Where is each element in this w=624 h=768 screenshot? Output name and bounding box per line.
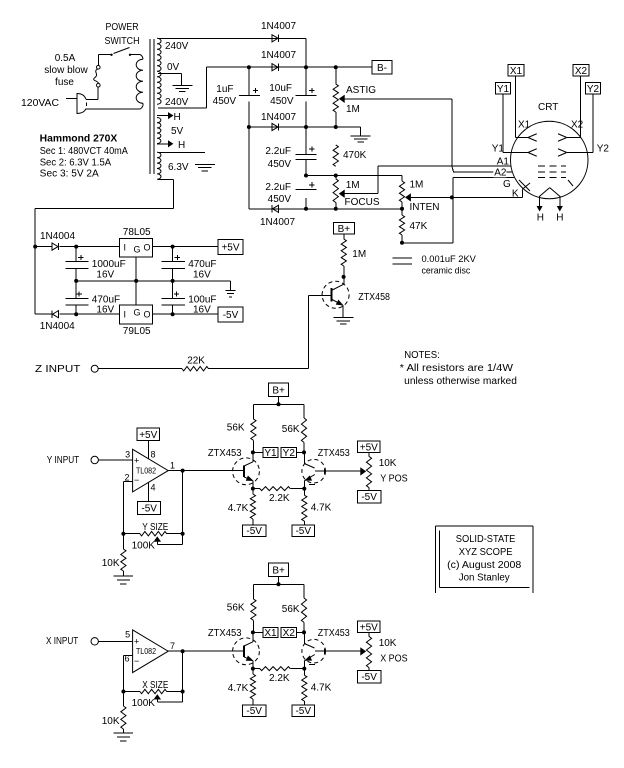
svg-text:450V: 450V [213,96,237,107]
resistor 4.7K Y right [302,489,332,525]
wire mid rail [249,126,361,128]
capacitor legend 0.001uF [393,254,477,277]
resistor 2.2K X [253,667,304,684]
svg-text:X POS: X POS [380,654,408,665]
svg-text:0.5A: 0.5A [55,53,76,64]
diode D2 1N4007 [261,50,296,71]
CRT grid G dashes [538,177,566,179]
svg-text:-5V: -5V [141,504,157,515]
power switch S1 [110,48,131,57]
pot Y POS 10K [361,453,408,491]
svg-text:Sec 1: 480VCT 40mA: Sec 1: 480VCT 40mA [40,146,128,157]
svg-text:Y1: Y1 [264,448,277,459]
svg-text:Sec 2: 6.3V 1.5A: Sec 2: 6.3V 1.5A [40,158,112,169]
svg-text:2.2uF: 2.2uF [265,182,291,193]
wire fuse to switch [98,55,110,66]
pot Y SIZE 100K [123,522,182,551]
svg-text:1N4004: 1N4004 [40,321,75,332]
svg-text:10K: 10K [379,458,397,469]
wire 0V tap to ground [158,73,181,85]
svg-text:450V: 450V [268,194,292,205]
CRT Y2 plate [558,144,609,157]
svg-text:100K: 100K [132,540,156,551]
text A2 label [493,168,507,179]
svg-text:4.7K: 4.7K [311,503,332,514]
net label -5V Y left [242,525,266,537]
svg-text:TL082: TL082 [136,646,156,656]
svg-text:1M: 1M [346,180,360,191]
svg-text:2.2uF: 2.2uF [265,146,291,157]
text 6.3V winding [168,162,189,173]
junction Y output [181,469,185,473]
text 240V bottom tap [165,97,189,108]
svg-text:-5V: -5V [361,492,377,503]
text POWER SWITCH label [105,22,140,47]
heater tap H lower [157,140,185,151]
wire plug bottom to primary bottom [86,108,141,110]
resistor 2.2K Y [253,487,304,504]
ground 0V center tap [172,86,192,92]
wire Y op-amp inverting stub [123,481,132,533]
svg-text:FOCUS: FOCUS [345,197,380,208]
svg-text:+: + [134,455,139,465]
wire 22K to riser [209,368,309,370]
svg-text:X1: X1 [264,628,277,639]
svg-text:4.7K: 4.7K [228,683,249,694]
junction mid rail at C2 [304,125,308,129]
svg-text:-5V: -5V [223,310,239,321]
svg-text:ZTX453: ZTX453 [318,448,350,459]
svg-text:B+: B+ [272,385,285,396]
svg-text:−: − [134,656,139,666]
wire LV left rail [34,247,36,315]
junction K node [450,195,454,199]
text Sec 1 [40,146,128,157]
heater tap H upper [157,112,181,123]
svg-text:10K: 10K [102,716,120,727]
svg-text:Y INPUT: Y INPUT [47,455,79,466]
junction mid rail at G pin [134,279,138,283]
svg-text:X INPUT: X INPUT [46,636,78,647]
net label -5V supply [218,307,243,322]
wire A1 line [378,165,511,167]
ground LV supply [225,290,235,296]
svg-text:CRT: CRT [538,102,558,113]
wire ASTIG wiper to A1 [344,99,452,166]
wire G line [453,178,514,198]
capacitor C7 470uF 16V [162,247,217,281]
ground Y 10K [114,576,133,584]
junction X left emitter [251,667,255,671]
svg-text:7: 7 [170,641,175,651]
junction X SIZE left [121,690,125,694]
wire Y op-amp output [168,470,243,472]
net label Y2 out [281,447,304,459]
CRT heater lead H left [537,196,544,223]
svg-text:G: G [134,245,141,255]
text 5V winding [171,126,184,137]
text G label [503,179,511,190]
wire cap midpoint to INTEN top [306,175,402,177]
CRT Y1 plate [492,144,537,157]
pot INTEN 1M [399,176,439,214]
svg-text:Z INPUT: Z INPUT [35,364,80,375]
transformer T1 5V winding [157,118,161,144]
svg-text:240V: 240V [165,41,189,52]
CRT X1 plate [518,120,537,142]
junction bottom rail at FOCUS [334,207,338,211]
wire INTEN wiper to K node [410,196,452,198]
svg-text:slow blow: slow blow [44,65,88,76]
svg-text:Y SIZE: Y SIZE [142,522,168,533]
junction X output [181,649,185,653]
junction Y2 collector [302,450,306,454]
pot X SIZE 100K [123,680,182,709]
wire D1 to B- rail [305,38,307,67]
svg-text:240V: 240V [165,97,189,108]
text Z INPUT [35,364,80,375]
svg-text:56K: 56K [282,424,300,435]
wire Y output to feedback [182,471,184,534]
junction X SIZE right [181,690,185,694]
svg-text:-5V: -5V [246,526,262,537]
wire 6.3V top tap [158,151,205,153]
net label +5V op-amp Y [137,428,160,441]
svg-text:X2: X2 [575,66,588,77]
svg-text:-5V: -5V [246,706,262,717]
terminal X input [91,638,98,645]
svg-text:120VAC: 120VAC [21,98,59,109]
diode D1 1N4007 [261,21,296,42]
svg-text:X1: X1 [510,66,523,77]
svg-text:78L05: 78L05 [123,227,151,238]
wire K line to CRT [452,183,530,197]
wire switch to transformer primary [130,54,140,56]
wire Z input [98,368,182,370]
svg-text:470K: 470K [343,150,367,161]
text X INPUT [46,636,78,647]
text Sec 2 [40,158,112,169]
svg-text:X1: X1 [518,120,531,131]
net label -5V Y right [292,525,315,537]
title box [435,526,533,593]
svg-text:100K: 100K [132,698,156,709]
CRT X2 plate [558,120,584,142]
svg-text:1N4007: 1N4007 [261,21,296,32]
svg-text:Y2: Y2 [283,448,296,459]
svg-text:56K: 56K [227,603,245,614]
wire 240V bottom tap [158,67,206,108]
svg-text:ZTX453: ZTX453 [208,448,242,459]
wire 78L05 G to 79L05 G [135,257,137,305]
wire B+ X stub [278,576,280,584]
text resistors note 2 [404,376,517,387]
pot FOCUS 1M [333,176,380,209]
wire B+ Y stub [278,396,280,404]
svg-text:10uF: 10uF [269,83,292,94]
CRT anode A1 dashes [538,165,566,167]
text NOTES [404,350,440,361]
transformer T1 HV secondary winding [157,38,161,104]
svg-text:1N4004: 1N4004 [40,231,75,242]
wire X op-amp output [168,650,243,652]
junction -5V rail at C6 [74,312,78,316]
svg-text:(c) August 2008: (c) August 2008 [447,560,522,571]
junction Y left emitter [251,487,255,491]
net label +5V supply [218,240,243,255]
CRT envelope [511,121,589,199]
net label B+ HV [333,223,354,235]
CRT anode A2 dashes [538,171,566,173]
wire X2 plate lead [567,76,581,138]
text Hammond 270X [40,134,118,145]
svg-text:O: O [144,310,151,320]
net label -5V X POS [357,671,380,684]
diode D5 1N4004 [35,231,76,250]
transistor Q2 ZTX453 [208,448,260,489]
CRT heater lead H right [556,196,563,223]
wire pin8 stub [147,441,149,459]
svg-text:1N4007: 1N4007 [261,112,296,123]
net label B- [372,61,392,75]
svg-text:−: − [134,475,139,485]
junction -5V rail at C8 [171,312,175,316]
wire mid rail ground stem [360,127,362,136]
diode D4 1N4007 [260,205,295,228]
svg-text:I: I [124,310,127,320]
svg-text:H: H [174,112,181,123]
svg-text:H: H [537,212,544,223]
svg-text:+5V: +5V [360,622,378,633]
capacitor C1 1uF 450V [213,67,260,127]
net label Y1 top [496,83,511,95]
diode D3 1N4007 [261,112,296,131]
ground mid rail [351,136,371,142]
text 240V top tap [165,41,189,52]
wire Y1 plate lead [503,94,528,153]
svg-text:+5V: +5V [139,430,157,441]
net label X2 top [573,65,589,77]
pot ASTIG 1M [333,67,376,127]
svg-text:450V: 450V [268,159,292,170]
capacitor C6 470uF 16V [65,281,120,316]
svg-text:X2: X2 [283,628,296,639]
wire +5V rail [76,246,120,248]
wire 78L05 out to +5V box [152,246,218,248]
junction D5 cathode [33,245,37,249]
svg-text:-5V: -5V [295,706,311,717]
wire 47K bottom to K node [402,197,453,242]
svg-text:4.7K: 4.7K [228,503,249,514]
diode D6 1N4004 [35,311,76,332]
text Y INPUT [47,455,79,466]
resistor 470K [333,145,367,166]
svg-text:B+: B+ [272,565,285,576]
wire plug to fuse [97,87,99,100]
wire X collector rail [253,584,304,599]
text 120VAC [21,98,59,109]
transformer T1 core [150,39,154,174]
svg-text:ZTX458: ZTX458 [358,292,390,303]
svg-text:H: H [178,140,185,151]
svg-text:4: 4 [151,483,156,493]
svg-text:22K: 22K [187,356,205,367]
CRT heater filament [540,188,560,197]
resistor 56K Y right [282,418,307,452]
wire X base to X POS [315,650,361,652]
net label X2 out [281,627,304,639]
wire X1 plate lead [516,76,529,138]
ground 6.3V winding [195,164,215,171]
ground ZTX458 emitter [333,318,353,325]
junction Y SIZE left [121,532,125,536]
transistor Q5 ZTX453 [302,628,350,669]
capacitor C4 2.2uF 450V [265,182,316,209]
junction Y SIZE right [181,532,185,536]
svg-text:56K: 56K [282,604,300,615]
capacitor C8 100uF 16V [162,281,217,316]
resistor 10K X input [102,692,126,734]
svg-text:-5V: -5V [295,526,311,537]
junction +5V rail at C5 [74,245,78,249]
text resistors note 1 [400,363,514,374]
svg-text:INTEN: INTEN [410,202,440,213]
wire ZTX458 base [308,294,331,296]
svg-text:8: 8 [151,450,156,460]
junction 470K bottom [334,174,338,178]
svg-text:X2: X2 [571,120,584,131]
junction B- rail at C1 [247,65,251,69]
svg-text:unless otherwise marked: unless otherwise marked [404,376,517,387]
resistor 4.7K X right [302,669,332,705]
net label -5V op-amp Y [138,502,161,515]
junction mid rail at C1 [247,125,251,129]
wire X input to op-amp [98,640,132,642]
svg-text:450V: 450V [270,96,294,107]
junction B+ X rail [277,582,281,586]
svg-text:H: H [556,212,563,223]
resistor 47K [399,209,427,243]
svg-text:10K: 10K [102,558,120,569]
svg-text:Jon Stanley: Jon Stanley [459,572,510,583]
regulator U2 78L05 [120,227,153,257]
junction C3 C4 midpoint [304,174,308,178]
transistor Q3 ZTX453 [302,448,350,489]
svg-text:B-: B- [377,63,387,74]
junction bottom rail at C4 [304,207,308,211]
svg-text:Hammond 270X: Hammond 270X [40,134,118,145]
svg-text:56K: 56K [227,423,245,434]
svg-text:I: I [124,243,127,253]
wire FOCUS wiper to A2 [344,166,378,194]
svg-text:16V: 16V [96,269,114,280]
net label -5V X left [242,705,266,717]
wire A2 jog [452,166,512,172]
resistor 22K [182,356,209,371]
resistor 4.7K X left [228,669,256,705]
text Sec 3 [40,169,99,180]
capacitor C3 2.2uF 450V [265,127,316,176]
wire mid rail ground stem [229,281,231,290]
transformer T1 6.3V winding [157,152,161,179]
net label X1 top [508,65,524,77]
svg-text:3: 3 [125,450,130,460]
svg-text:SOLID-STATE: SOLID-STATE [456,534,516,545]
svg-text:1N4007: 1N4007 [261,50,296,61]
svg-text:ZTX453: ZTX453 [208,628,242,639]
capacitor C5 1000uF 16V [65,247,125,281]
junction X right emitter [302,667,306,671]
junction X2 collector [302,630,306,634]
svg-text:1: 1 [170,461,175,471]
resistor 4.7K Y left [228,489,256,525]
net label B+ X [269,563,289,576]
wire X output to feedback [182,651,184,691]
wire C1 bottom lead [248,127,250,209]
AC plug P1 [66,93,99,114]
wire Y base to Y POS [315,470,361,472]
wire Y input to op-amp [98,459,132,461]
fuse F1 value text [44,53,88,88]
net label -5V X right [292,705,315,717]
junction Y right emitter [302,487,306,491]
CRT grid electrode [519,180,530,191]
svg-text:A2: A2 [494,168,507,179]
svg-text:+5V: +5V [221,243,239,254]
transistor Q1 ZTX458 [322,277,390,317]
terminal Y input [91,456,98,463]
wire LV mid rail [76,280,230,282]
svg-text:Y2: Y2 [587,84,600,95]
svg-text:ASTIG: ASTIG [346,85,376,96]
text 0V center tap [167,62,180,73]
svg-text:6.3V: 6.3V [168,162,189,173]
op-amp U4B TL082 [124,630,175,673]
svg-text:5: 5 [125,630,130,640]
svg-text:POWER: POWER [106,22,139,33]
svg-text:Y1: Y1 [497,84,510,95]
svg-text:Y1: Y1 [492,144,505,155]
junction +5V rail at C7 [171,245,175,249]
svg-text:79L05: 79L05 [123,326,151,337]
net label X1 out [253,627,278,639]
svg-text:XYZ SCOPE: XYZ SCOPE [459,547,513,558]
svg-text:O: O [144,243,151,253]
junction mid rail at ASTIG [334,125,338,129]
resistor 56K X left [227,599,256,632]
junction B- rail at C2 [304,65,308,69]
wire Y2 plate lead [567,94,593,153]
text K label [512,189,519,200]
svg-text:1M: 1M [346,104,360,115]
svg-text:Sec 3: 5V 2A: Sec 3: 5V 2A [40,169,99,180]
svg-text:G: G [134,308,141,318]
ground X 10K [114,733,133,741]
resistor 1M Z collector [341,234,366,277]
svg-text:A1: A1 [497,157,510,168]
net label +5V X POS [357,621,380,633]
text A1 label [497,157,510,168]
wire Y collector rail [253,404,304,419]
svg-text:2.2K: 2.2K [269,493,290,504]
svg-text:NOTES:: NOTES: [404,350,440,361]
svg-text:1N4007: 1N4007 [260,217,295,228]
net label +5V Y POS [357,441,380,453]
net label Y1 out [253,447,278,459]
fuse F1 0.5A [94,65,100,87]
wire HV bottom rail [249,208,402,210]
svg-text:1M: 1M [352,249,366,260]
